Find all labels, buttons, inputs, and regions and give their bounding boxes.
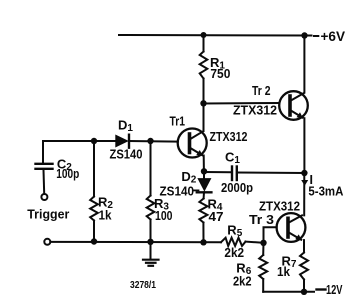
wire top rail down to R1 bbox=[203, 35, 205, 52]
wire D1 cathode to Tr1 base bbox=[129, 140, 178, 143]
svg-text:47: 47 bbox=[209, 209, 224, 224]
wire C1 right plate to Tr2 emitter line bbox=[237, 172, 304, 175]
node R7 / rail junction bbox=[301, 289, 307, 295]
wire Tr2 collector to top rail bbox=[303, 36, 305, 93]
svg-text:ZS140: ZS140 bbox=[110, 147, 143, 162]
wire Tr2 emitter down to C1 node bbox=[303, 118, 305, 173]
node rail / R4 / R5 junction bbox=[200, 239, 206, 245]
node C1 / Tr2 emitter / Tr3 collector junction bbox=[301, 170, 307, 176]
resistor R6 bbox=[259, 243, 267, 292]
svg-text:+6V: +6V bbox=[321, 29, 346, 44]
svg-text:5-3mA: 5-3mA bbox=[308, 184, 344, 199]
wire dash before +6V label bbox=[314, 35, 318, 37]
wire R1 bottom to junction bbox=[203, 79, 205, 104]
node R5 / R6 / Tr3 base junction bbox=[260, 240, 266, 246]
svg-text:1k: 1k bbox=[277, 264, 291, 279]
svg-text:2000p: 2000p bbox=[221, 180, 253, 195]
wire trigger input bus bbox=[43, 140, 116, 142]
svg-text:100: 100 bbox=[155, 208, 173, 223]
svg-text:ZTX312: ZTX312 bbox=[233, 103, 277, 118]
resistor R7 bbox=[300, 253, 308, 292]
transistor Q Tr3 bbox=[277, 213, 306, 242]
node bus / R2 junction bbox=[91, 138, 97, 144]
node common terminal (bottom left) bbox=[44, 239, 50, 245]
svg-text:100p: 100p bbox=[56, 166, 79, 181]
current arrow I bbox=[301, 180, 308, 186]
node rail / R3 / ground junction bbox=[147, 239, 153, 245]
resistor R3 bbox=[147, 141, 155, 242]
svg-text:12V: 12V bbox=[326, 282, 343, 297]
wire Tr3 base link bbox=[264, 227, 277, 243]
svg-text:C1: C1 bbox=[225, 150, 240, 167]
svg-text:R5: R5 bbox=[227, 223, 242, 240]
ground bbox=[143, 242, 159, 266]
wire Tr3 emitter to R7 bbox=[303, 240, 305, 252]
svg-text:Tr 2: Tr 2 bbox=[252, 83, 271, 98]
node R1 / Tr2 base / Tr1 collector junction bbox=[200, 100, 206, 106]
svg-text:ZTX312: ZTX312 bbox=[210, 129, 248, 144]
diode D2 bbox=[194, 171, 211, 192]
wire junction to C1 left plate bbox=[204, 171, 231, 173]
transistor Q Tr1 bbox=[178, 129, 207, 158]
capacitor C1 bbox=[232, 167, 237, 181]
node bus / R3 junction bbox=[147, 138, 153, 144]
transistor Q Tr2 bbox=[279, 91, 308, 120]
node rail / R2 junction bbox=[91, 238, 97, 244]
resistor R5 bbox=[221, 238, 264, 246]
wire bottom common rail bbox=[50, 241, 221, 243]
wire bottom right rail to -12V bbox=[263, 291, 314, 293]
wire +6V top rail bbox=[119, 34, 312, 37]
svg-text:2k2: 2k2 bbox=[233, 273, 252, 288]
node trigger terminal bbox=[41, 194, 47, 200]
resistor R4 bbox=[199, 192, 207, 242]
svg-text:Tr 3: Tr 3 bbox=[249, 212, 274, 227]
svg-text:D1: D1 bbox=[118, 117, 133, 134]
capacitor C2 bbox=[36, 141, 53, 194]
svg-text:Tr1: Tr1 bbox=[170, 114, 186, 129]
svg-text:2k2: 2k2 bbox=[224, 245, 244, 260]
svg-text:Trigger: Trigger bbox=[27, 207, 69, 222]
wire Tr3 collector up to C1 node (with current arrow) bbox=[303, 173, 305, 215]
svg-text:1k: 1k bbox=[99, 208, 113, 223]
diode D1 bbox=[116, 135, 128, 146]
wire junction to Tr2 base bbox=[204, 102, 280, 105]
svg-text:ZS140: ZS140 bbox=[160, 184, 195, 199]
wire Tr1 collector up to junction bbox=[203, 103, 205, 131]
wire minus sign of -12V bbox=[317, 288, 326, 290]
wire Tr1 emitter down to junction bbox=[203, 156, 205, 172]
svg-text:750: 750 bbox=[210, 66, 230, 81]
node top rail / R1 junction bbox=[201, 32, 207, 38]
resistor R1 bbox=[200, 52, 208, 79]
node Tr1 emitter / C1 / D2 junction bbox=[201, 168, 207, 174]
resistor R2 bbox=[90, 141, 98, 242]
node top rail / Tr2 collector junction bbox=[301, 32, 307, 38]
svg-text:3278/1: 3278/1 bbox=[130, 279, 156, 291]
